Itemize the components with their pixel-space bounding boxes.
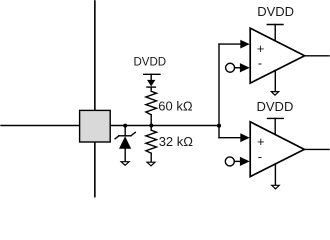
- comparator U3: [219, 99, 329, 189]
- arrowhead - input: [240, 63, 250, 72]
- svg-text:-: -: [258, 149, 262, 164]
- diode D2 (from DVDD): [147, 80, 155, 91]
- node A junction dot (zener): [123, 124, 127, 128]
- ground (U3): [272, 185, 279, 189]
- ground (R2): [147, 162, 155, 166]
- ground (zener): [121, 162, 129, 166]
- resistor R2 32k zigzag: [146, 130, 157, 153]
- power bar: [267, 24, 283, 26]
- wire vertical below pad: [94, 142, 96, 197]
- pad U1: [80, 110, 111, 142]
- power DVDD bar: [144, 73, 160, 75]
- ground stub: [274, 70, 276, 91]
- arrowhead - input: [240, 157, 250, 166]
- svg-text:DVDD: DVDD: [134, 56, 167, 68]
- wire output: [304, 148, 329, 150]
- wire horizontal left into pad: [1, 125, 80, 127]
- svg-text:DVDD: DVDD: [257, 4, 294, 19]
- wire + input: [219, 137, 241, 139]
- node B junction dot: [149, 124, 153, 128]
- wire R2 to ground: [150, 153, 152, 162]
- wire zener to ground: [124, 149, 126, 162]
- wire R1 to node: [150, 115, 152, 126]
- zener diode D1: [115, 132, 135, 148]
- op-amp triangle: [250, 122, 304, 177]
- svg-text:DVDD: DVDD: [257, 99, 294, 114]
- svg-text:32 kΩ: 32 kΩ: [159, 134, 194, 149]
- wire node from pad to comparators: [110, 125, 219, 127]
- svg-text:+: +: [257, 41, 265, 56]
- resistor R1 60k zigzag: [146, 91, 157, 115]
- svg-text:60 kΩ: 60 kΩ: [158, 98, 193, 113]
- power bar: [268, 117, 284, 119]
- op-amp triangle: [250, 28, 304, 83]
- ground (U2): [271, 92, 278, 96]
- svg-text:-: -: [258, 55, 262, 70]
- svg-text:+: +: [257, 134, 265, 149]
- node C junction dot: [217, 124, 221, 128]
- terminal circle - input: [226, 63, 235, 72]
- ground stub: [274, 164, 276, 185]
- arrowhead + input: [240, 40, 249, 49]
- wire output: [305, 55, 329, 57]
- wire vertical to comparator + inputs: [218, 44, 220, 138]
- wire vertical into pad top: [94, 1, 96, 110]
- arrowhead + input: [240, 133, 249, 142]
- wire node to R2: [150, 126, 152, 131]
- wire + input: [219, 43, 241, 45]
- comparator U2: [219, 4, 329, 95]
- terminal circle - input: [225, 157, 234, 166]
- wire zener top: [124, 126, 126, 136]
